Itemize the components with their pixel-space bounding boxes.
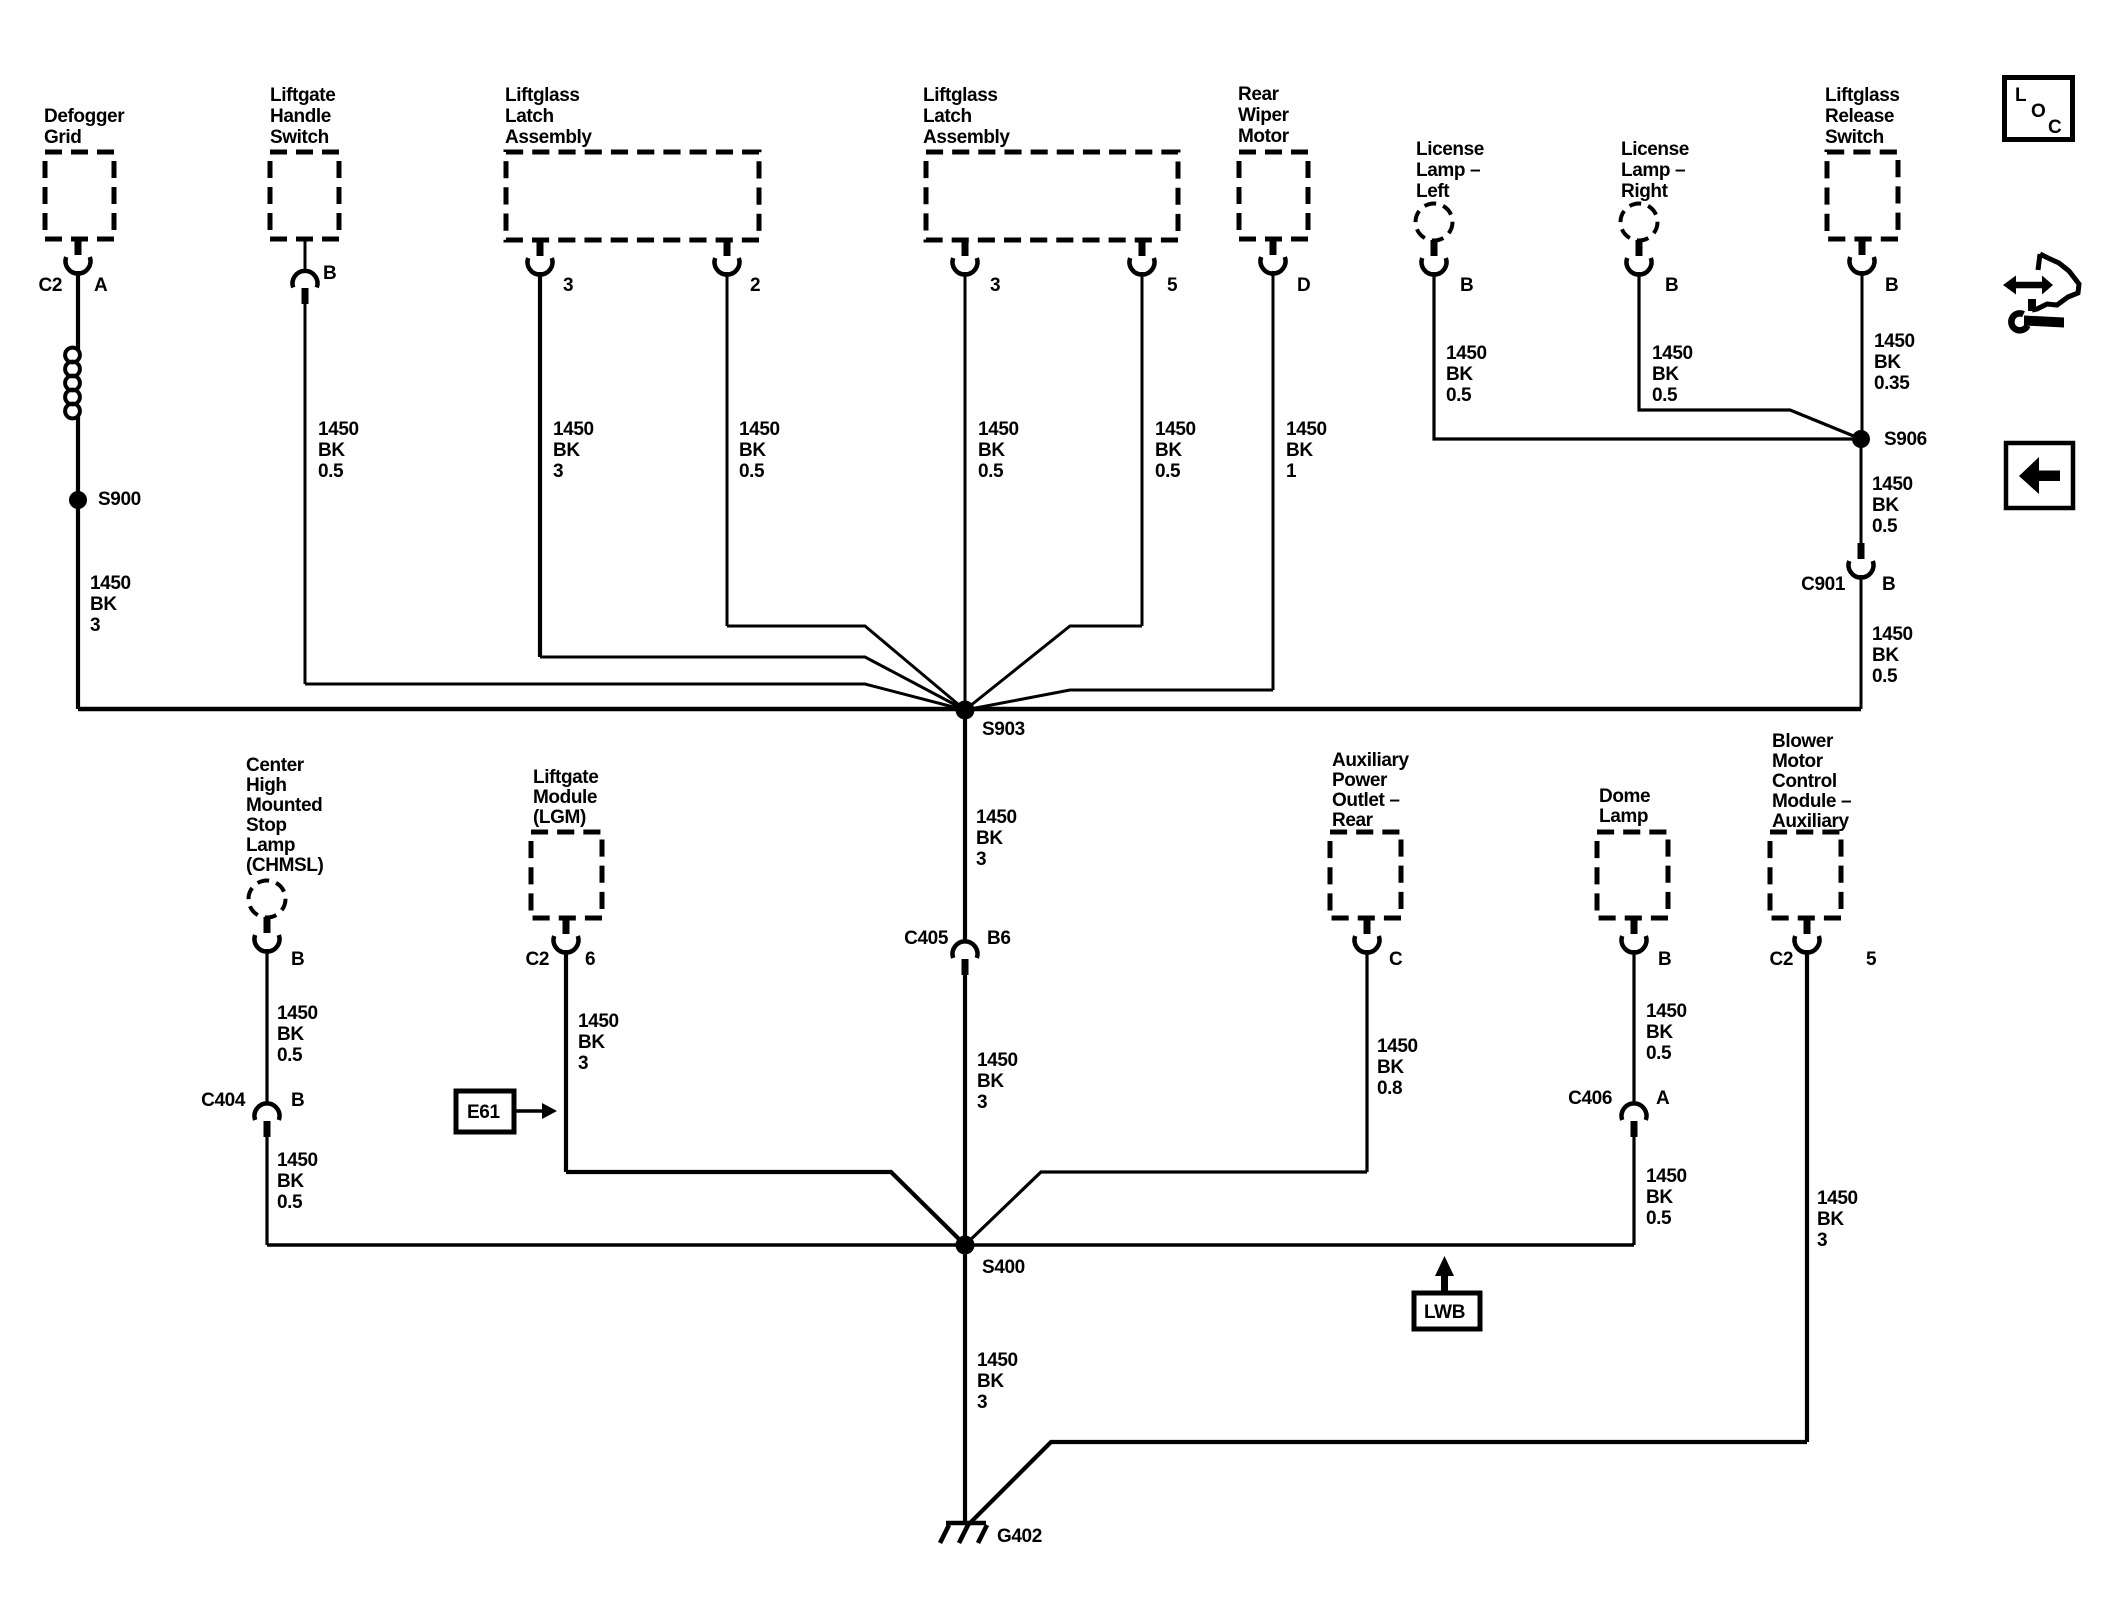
wire latch1 pin3 down bbox=[538, 272, 542, 657]
svg-text:1450: 1450 bbox=[977, 1050, 1018, 1071]
wire label 1450 BK 0.5 bbox=[978, 419, 1019, 482]
svg-text:BK: BK bbox=[277, 1171, 304, 1192]
connector C901 stub bbox=[1858, 543, 1865, 559]
svg-text:3: 3 bbox=[977, 1392, 987, 1413]
label C901 bbox=[1801, 574, 1846, 595]
svg-text:0.5: 0.5 bbox=[1872, 666, 1898, 687]
svg-text:Assembly: Assembly bbox=[923, 127, 1010, 148]
label pin 2 bbox=[750, 275, 760, 296]
svg-text:Latch: Latch bbox=[923, 106, 972, 127]
svg-text:3: 3 bbox=[578, 1053, 588, 1074]
label pin B bbox=[1885, 275, 1898, 296]
svg-text:Switch: Switch bbox=[270, 127, 329, 148]
svg-text:Module: Module bbox=[533, 787, 597, 808]
wire coil to S900 bbox=[76, 416, 80, 500]
svg-text:C404: C404 bbox=[201, 1090, 246, 1111]
svg-text:0.5: 0.5 bbox=[739, 461, 765, 482]
wire label 1450 BK 3 bbox=[553, 419, 594, 482]
pin B cup connector of Dome Lamp bbox=[1622, 936, 1647, 953]
wire label 1450 BK 0.5 bbox=[1646, 1001, 1687, 1064]
svg-text:BK: BK bbox=[1872, 495, 1899, 516]
wire dome lamp down to C406 bbox=[1632, 950, 1635, 1104]
svg-text:(CHMSL): (CHMSL) bbox=[246, 855, 323, 876]
label C2 bbox=[39, 275, 63, 296]
svg-text:0.35: 0.35 bbox=[1874, 373, 1910, 394]
component Defogger Grid label bbox=[44, 106, 125, 148]
wire blower module to ground bbox=[967, 1442, 1807, 1526]
label pin 3 bbox=[990, 275, 1000, 296]
svg-text:1450: 1450 bbox=[1874, 331, 1915, 352]
svg-text:0.5: 0.5 bbox=[1446, 385, 1472, 406]
pin B stub bbox=[1636, 240, 1643, 256]
wire label 1450 BK 0.5 bbox=[1872, 474, 1913, 537]
svg-text:S906: S906 bbox=[1884, 429, 1927, 450]
wire label 1450 BK 0.5 bbox=[277, 1150, 318, 1213]
component Liftglass Release Switch label bbox=[1825, 85, 1900, 148]
svg-text:(LGM): (LGM) bbox=[533, 807, 586, 828]
pin B stub bbox=[302, 288, 309, 304]
icon tools outline shape bbox=[2032, 254, 2079, 310]
svg-text:Liftglass: Liftglass bbox=[1825, 85, 1900, 106]
svg-text:B: B bbox=[323, 263, 336, 284]
wire handle switch down bbox=[304, 304, 307, 684]
pin 6 cup connector of LGM bbox=[554, 936, 579, 953]
wire defogger to coil bbox=[76, 271, 80, 350]
svg-text:6: 6 bbox=[585, 949, 595, 970]
svg-text:BK: BK bbox=[318, 440, 345, 461]
icon tools double arrow bbox=[2003, 276, 2053, 295]
pin 3 cup connector bbox=[953, 258, 978, 275]
pin 2 cup connector bbox=[714, 258, 739, 275]
svg-text:B: B bbox=[1460, 275, 1473, 296]
svg-text:BK: BK bbox=[976, 828, 1003, 849]
svg-text:Outlet –: Outlet – bbox=[1332, 790, 1400, 811]
svg-text:0.5: 0.5 bbox=[1646, 1043, 1672, 1064]
component Auxiliary Power Outlet label bbox=[1332, 750, 1409, 831]
pin B dome connector of Liftgate Handle Switch bbox=[293, 271, 318, 288]
svg-text:BK: BK bbox=[978, 440, 1005, 461]
svg-text:BK: BK bbox=[578, 1032, 605, 1053]
wire CHMSL down to C404 bbox=[265, 949, 268, 1104]
label pin A of C406 bbox=[1656, 1088, 1670, 1109]
icon tools wrench jaw bbox=[2011, 313, 2027, 330]
connector C901 cup bbox=[1849, 561, 1874, 578]
svg-text:BK: BK bbox=[1646, 1187, 1673, 1208]
wire S906 down to C901 bbox=[1860, 439, 1863, 543]
wire label 1450 BK 0.5 (handle) bbox=[318, 419, 359, 482]
pin 3 cup connector bbox=[528, 258, 553, 275]
pin 3 stub bbox=[537, 240, 544, 256]
svg-text:Grid: Grid bbox=[44, 127, 81, 148]
component Liftglass Release Switch box bbox=[1827, 152, 1898, 239]
svg-text:0.5: 0.5 bbox=[277, 1045, 303, 1066]
splice S400 bbox=[956, 1236, 975, 1255]
label pin B6 of C405 bbox=[987, 928, 1011, 949]
svg-text:Defogger: Defogger bbox=[44, 106, 125, 127]
wire latch1 pin2 down bbox=[726, 272, 729, 626]
wire aux outlet down bbox=[1365, 950, 1368, 1172]
svg-text:Liftgate: Liftgate bbox=[533, 767, 598, 788]
component Blower Motor Control Module box bbox=[1770, 832, 1841, 918]
svg-text:License: License bbox=[1416, 139, 1484, 160]
wire label 1450 BK 1 bbox=[1286, 419, 1327, 482]
label C405 bbox=[904, 928, 949, 949]
svg-text:L: L bbox=[2015, 85, 2027, 106]
svg-text:BK: BK bbox=[1874, 352, 1901, 373]
svg-text:1450: 1450 bbox=[318, 419, 359, 440]
wire label 1450 BK 0.5 bbox=[277, 1003, 318, 1066]
wire S400 horizontal bbox=[267, 1243, 1634, 1246]
label C2 of LGM bbox=[526, 949, 550, 970]
svg-text:1450: 1450 bbox=[978, 419, 1019, 440]
icon tools wrench handle bbox=[2024, 316, 2064, 328]
wire latch1 pin3 to S903 bbox=[540, 657, 965, 710]
svg-text:BK: BK bbox=[553, 440, 580, 461]
wire label 1450 BK 0.5 bbox=[1652, 343, 1693, 406]
component License Lamp Left label bbox=[1416, 139, 1484, 202]
svg-text:BK: BK bbox=[1446, 364, 1473, 385]
svg-text:2: 2 bbox=[750, 275, 760, 296]
pin D cup connector bbox=[1261, 257, 1286, 274]
connector C406 dome bbox=[1622, 1103, 1647, 1120]
component Liftgate Module label bbox=[533, 767, 598, 828]
svg-text:0.5: 0.5 bbox=[978, 461, 1004, 482]
pin 5 cup connector bbox=[1130, 258, 1155, 275]
wire license left down and right to S906 bbox=[1434, 272, 1861, 439]
svg-text:3: 3 bbox=[976, 849, 986, 870]
svg-text:1450: 1450 bbox=[739, 419, 780, 440]
svg-text:O: O bbox=[2031, 101, 2045, 122]
wire label 1450 BK 3 (defogger) bbox=[90, 573, 131, 636]
component Liftgate Module box bbox=[531, 832, 602, 918]
pin 5 cup connector bbox=[1795, 936, 1820, 953]
label pin 5 bbox=[1167, 275, 1178, 296]
svg-text:Mounted: Mounted bbox=[246, 795, 322, 816]
svg-text:BK: BK bbox=[977, 1071, 1004, 1092]
arrow from E61 to LGM wire bbox=[514, 1109, 542, 1113]
svg-text:Lamp: Lamp bbox=[1599, 806, 1648, 827]
component Blower Motor Control Module label bbox=[1772, 731, 1851, 832]
wire C901 down to trunk bbox=[1860, 575, 1863, 709]
wire S900 down to trunk bbox=[76, 500, 80, 709]
svg-text:S903: S903 bbox=[982, 719, 1025, 740]
svg-text:1450: 1450 bbox=[1446, 343, 1487, 364]
svg-text:3: 3 bbox=[1817, 1230, 1827, 1251]
label C404 bbox=[201, 1090, 246, 1111]
component Dome Lamp label bbox=[1599, 786, 1650, 827]
svg-text:C406: C406 bbox=[1568, 1088, 1612, 1109]
component Auxiliary Power Outlet box bbox=[1330, 832, 1401, 918]
svg-text:BK: BK bbox=[90, 594, 117, 615]
pin A cup connector of Defogger Grid bbox=[66, 257, 91, 274]
label pin 6 bbox=[585, 949, 595, 970]
component Liftgate Handle Switch box bbox=[270, 152, 339, 239]
component Liftglass Latch Assembly 1 box bbox=[506, 152, 759, 240]
wire label 1450 BK 0.5 bbox=[1155, 419, 1196, 482]
svg-text:0.5: 0.5 bbox=[318, 461, 344, 482]
svg-text:0.5: 0.5 bbox=[1652, 385, 1678, 406]
wire license right to S906 bbox=[1639, 272, 1861, 439]
svg-text:1450: 1450 bbox=[277, 1150, 318, 1171]
component License Lamp Left lamp circle bbox=[1416, 204, 1453, 241]
splice S906 bbox=[1852, 430, 1870, 448]
svg-text:1450: 1450 bbox=[277, 1003, 318, 1024]
pin B cup connector of CHMSL bbox=[254, 935, 279, 952]
component Liftglass Latch Assembly 1 label bbox=[505, 85, 592, 148]
svg-text:1450: 1450 bbox=[1872, 474, 1913, 495]
svg-text:Control: Control bbox=[1772, 771, 1837, 792]
pin B stub bbox=[1431, 240, 1438, 256]
svg-text:Assembly: Assembly bbox=[505, 127, 592, 148]
svg-text:1: 1 bbox=[1286, 461, 1297, 482]
pin B stub of Dome Lamp bbox=[1631, 918, 1638, 934]
wire S903 down to C405 bbox=[963, 710, 967, 941]
svg-text:License: License bbox=[1621, 139, 1689, 160]
pin 5 stub bbox=[1804, 918, 1811, 934]
pin C cup connector bbox=[1355, 936, 1380, 953]
label pin B of C901 bbox=[1882, 574, 1895, 595]
svg-text:3: 3 bbox=[90, 615, 100, 636]
connector C406 stub bbox=[1631, 1121, 1638, 1137]
svg-text:Motor: Motor bbox=[1238, 126, 1290, 147]
wire latch2 pin3 down to S903 bbox=[964, 272, 967, 710]
pin B cup connector bbox=[1850, 257, 1875, 274]
svg-text:1450: 1450 bbox=[1646, 1166, 1687, 1187]
svg-text:BK: BK bbox=[739, 440, 766, 461]
label pin C bbox=[1389, 949, 1403, 970]
svg-text:BK: BK bbox=[277, 1024, 304, 1045]
component Liftgate Handle Switch label bbox=[270, 85, 335, 148]
connector C405 dome bbox=[953, 941, 978, 958]
wire S400 down to G402 bbox=[963, 1245, 967, 1524]
wire release switch down to S906 bbox=[1861, 271, 1864, 439]
icon left arrow bbox=[2019, 457, 2060, 494]
splice S903 bbox=[956, 701, 975, 720]
svg-text:S900: S900 bbox=[98, 489, 141, 510]
svg-text:1450: 1450 bbox=[976, 807, 1017, 828]
label pin A bbox=[94, 275, 108, 296]
svg-text:5: 5 bbox=[1866, 949, 1877, 970]
component Rear Wiper Motor label bbox=[1238, 84, 1290, 147]
connector C404 stub bbox=[264, 1121, 271, 1137]
svg-text:Handle: Handle bbox=[270, 106, 331, 127]
svg-text:Auxiliary: Auxiliary bbox=[1772, 811, 1849, 832]
pin B stub of CHMSL bbox=[264, 917, 271, 933]
svg-text:1450: 1450 bbox=[977, 1350, 1018, 1371]
svg-text:Lamp –: Lamp – bbox=[1621, 160, 1685, 181]
svg-text:S400: S400 bbox=[982, 1257, 1025, 1278]
component Liftglass Latch Assembly 2 label bbox=[923, 85, 1010, 148]
icon left arrow box bbox=[2006, 443, 2073, 508]
svg-text:1450: 1450 bbox=[1872, 624, 1913, 645]
svg-text:Liftglass: Liftglass bbox=[505, 85, 580, 106]
wire box to connector bbox=[304, 239, 307, 272]
svg-text:Liftgate: Liftgate bbox=[270, 85, 335, 106]
svg-text:Blower: Blower bbox=[1772, 731, 1834, 752]
component License Lamp Right lamp circle bbox=[1621, 204, 1658, 241]
wire label 1450 BK 0.8 bbox=[1377, 1036, 1418, 1099]
svg-text:A: A bbox=[1656, 1088, 1670, 1109]
svg-text:Right: Right bbox=[1621, 181, 1669, 202]
svg-text:C901: C901 bbox=[1801, 574, 1846, 595]
svg-text:3: 3 bbox=[563, 275, 573, 296]
connector C404 dome bbox=[254, 1103, 279, 1120]
wire blower module down bbox=[1805, 950, 1809, 1442]
pin 3 stub bbox=[962, 240, 969, 256]
svg-text:G402: G402 bbox=[997, 1526, 1042, 1547]
wire wiper to S903 bbox=[965, 690, 1273, 710]
label pin B bbox=[1658, 949, 1671, 970]
wire label 1450 BK 0.5 bbox=[1446, 343, 1487, 406]
wire handle horizontal to S903 bbox=[305, 684, 965, 710]
component CHMSL label bbox=[246, 755, 323, 876]
component Defogger Grid box bbox=[45, 152, 114, 239]
svg-text:Lamp –: Lamp – bbox=[1416, 160, 1480, 181]
wire latch2 pin5 down bbox=[1141, 272, 1144, 626]
svg-text:High: High bbox=[246, 775, 287, 796]
wire main ground trunk horizontal bbox=[78, 707, 1861, 712]
splice S900 bbox=[69, 491, 87, 509]
wire wiper down bbox=[1272, 271, 1275, 690]
svg-text:1450: 1450 bbox=[90, 573, 131, 594]
pin 5 stub bbox=[1139, 240, 1146, 256]
svg-text:D: D bbox=[1297, 275, 1310, 296]
label pin B bbox=[291, 949, 304, 970]
component Rear Wiper Motor box bbox=[1239, 152, 1308, 239]
pin B cup connector bbox=[1626, 258, 1651, 275]
svg-text:C2: C2 bbox=[39, 275, 63, 296]
wire LGM down bbox=[564, 950, 568, 1172]
svg-text:Release: Release bbox=[1825, 106, 1894, 127]
svg-text:C: C bbox=[1389, 949, 1403, 970]
label pin B bbox=[1460, 275, 1473, 296]
svg-text:1450: 1450 bbox=[1377, 1036, 1418, 1057]
svg-text:Motor: Motor bbox=[1772, 751, 1824, 772]
svg-text:B: B bbox=[1665, 275, 1678, 296]
svg-text:Lamp: Lamp bbox=[246, 835, 295, 856]
label pin B bbox=[1665, 275, 1678, 296]
svg-text:Rear: Rear bbox=[1238, 84, 1280, 105]
wire label 1450 BK 0.5 bbox=[1646, 1166, 1687, 1229]
wire label 1450 BK 3 bbox=[578, 1011, 619, 1074]
svg-text:Auxiliary: Auxiliary bbox=[1332, 750, 1409, 771]
component License Lamp Right label bbox=[1621, 139, 1689, 202]
svg-text:1450: 1450 bbox=[1646, 1001, 1687, 1022]
label G402 bbox=[997, 1526, 1042, 1547]
pin B stub bbox=[1859, 239, 1866, 255]
wire aux outlet to S400 bbox=[965, 1172, 1367, 1245]
svg-text:B: B bbox=[291, 1090, 304, 1111]
svg-text:Switch: Switch bbox=[1825, 127, 1884, 148]
svg-text:BK: BK bbox=[1155, 440, 1182, 461]
svg-text:Dome: Dome bbox=[1599, 786, 1650, 807]
pin C stub bbox=[1364, 918, 1371, 934]
label pin D bbox=[1297, 275, 1310, 296]
svg-text:E61: E61 bbox=[467, 1102, 500, 1123]
wire C404 down to S400 horizontal bbox=[265, 1137, 268, 1245]
svg-text:Latch: Latch bbox=[505, 106, 554, 127]
svg-text:B: B bbox=[291, 949, 304, 970]
svg-text:Power: Power bbox=[1332, 770, 1388, 791]
svg-text:0.8: 0.8 bbox=[1377, 1078, 1402, 1099]
svg-text:Left: Left bbox=[1416, 181, 1450, 202]
svg-text:BK: BK bbox=[1817, 1209, 1844, 1230]
ground G402 symbol bbox=[940, 1523, 987, 1543]
label pin 3 bbox=[563, 275, 573, 296]
coil element of defogger grid bbox=[65, 348, 80, 419]
wire C405 down to S400 bbox=[963, 975, 967, 1245]
wire label 1450 BK 3 bbox=[1817, 1188, 1858, 1251]
svg-text:B: B bbox=[1885, 275, 1898, 296]
svg-text:3: 3 bbox=[990, 275, 1000, 296]
svg-text:C405: C405 bbox=[904, 928, 949, 949]
svg-text:0.5: 0.5 bbox=[277, 1192, 303, 1213]
wire LGM to S400 bbox=[566, 1172, 965, 1245]
svg-text:C2: C2 bbox=[526, 949, 550, 970]
reference box LWB bbox=[1414, 1293, 1480, 1329]
svg-text:3: 3 bbox=[553, 461, 563, 482]
svg-text:BK: BK bbox=[1377, 1057, 1404, 1078]
pin 6 stub of LGM bbox=[563, 918, 570, 934]
svg-text:1450: 1450 bbox=[1155, 419, 1196, 440]
pin A stub of Defogger Grid bbox=[75, 239, 82, 255]
svg-text:B: B bbox=[1882, 574, 1895, 595]
svg-text:BK: BK bbox=[1286, 440, 1313, 461]
svg-text:1450: 1450 bbox=[1286, 419, 1327, 440]
wire latch2 pin5 to S903 bbox=[965, 626, 1142, 710]
svg-text:1450: 1450 bbox=[553, 419, 594, 440]
wire C406 down to S400 horizontal bbox=[1632, 1137, 1635, 1245]
svg-text:C2: C2 bbox=[1770, 949, 1794, 970]
svg-text:Center: Center bbox=[246, 755, 305, 776]
label pin 5 bbox=[1866, 949, 1877, 970]
svg-text:B: B bbox=[1658, 949, 1671, 970]
wire label 1450 BK 0.5 bbox=[1872, 624, 1913, 687]
reference box E61 bbox=[456, 1091, 514, 1132]
svg-text:BK: BK bbox=[1646, 1022, 1673, 1043]
wire label 1450 BK 3 bbox=[977, 1350, 1018, 1413]
icon LOC box bbox=[2005, 78, 2073, 140]
connector C405 stub bbox=[962, 959, 969, 975]
component Liftglass Latch Assembly 2 box bbox=[926, 152, 1178, 240]
pin 2 stub bbox=[724, 240, 731, 256]
svg-text:1450: 1450 bbox=[1652, 343, 1693, 364]
svg-text:Rear: Rear bbox=[1332, 810, 1374, 831]
pin D stub bbox=[1270, 239, 1277, 255]
svg-text:LWB: LWB bbox=[1424, 1302, 1465, 1323]
svg-text:0.5: 0.5 bbox=[1872, 516, 1898, 537]
svg-text:1450: 1450 bbox=[1817, 1188, 1858, 1209]
component Dome Lamp box bbox=[1597, 832, 1668, 918]
icon tools outline shape nub bbox=[2028, 299, 2036, 311]
svg-text:0.5: 0.5 bbox=[1646, 1208, 1672, 1229]
wire label 1450 BK 3 bbox=[977, 1050, 1018, 1113]
svg-text:Stop: Stop bbox=[246, 815, 287, 836]
label pin B of C404 bbox=[291, 1090, 304, 1111]
svg-text:0.5: 0.5 bbox=[1155, 461, 1181, 482]
svg-text:Module –: Module – bbox=[1772, 791, 1851, 812]
svg-text:3: 3 bbox=[977, 1092, 987, 1113]
wire label 1450 BK 0.5 bbox=[739, 419, 780, 482]
svg-text:BK: BK bbox=[1652, 364, 1679, 385]
label pin B bbox=[323, 263, 336, 284]
label C406 bbox=[1568, 1088, 1612, 1109]
svg-text:Liftglass: Liftglass bbox=[923, 85, 998, 106]
wire latch1 pin2 to S903 bbox=[727, 626, 965, 710]
wire label 1450 BK 3 bbox=[976, 807, 1017, 870]
pin B cup connector bbox=[1422, 258, 1447, 275]
wire label 1450 BK 0.35 bbox=[1874, 331, 1915, 394]
